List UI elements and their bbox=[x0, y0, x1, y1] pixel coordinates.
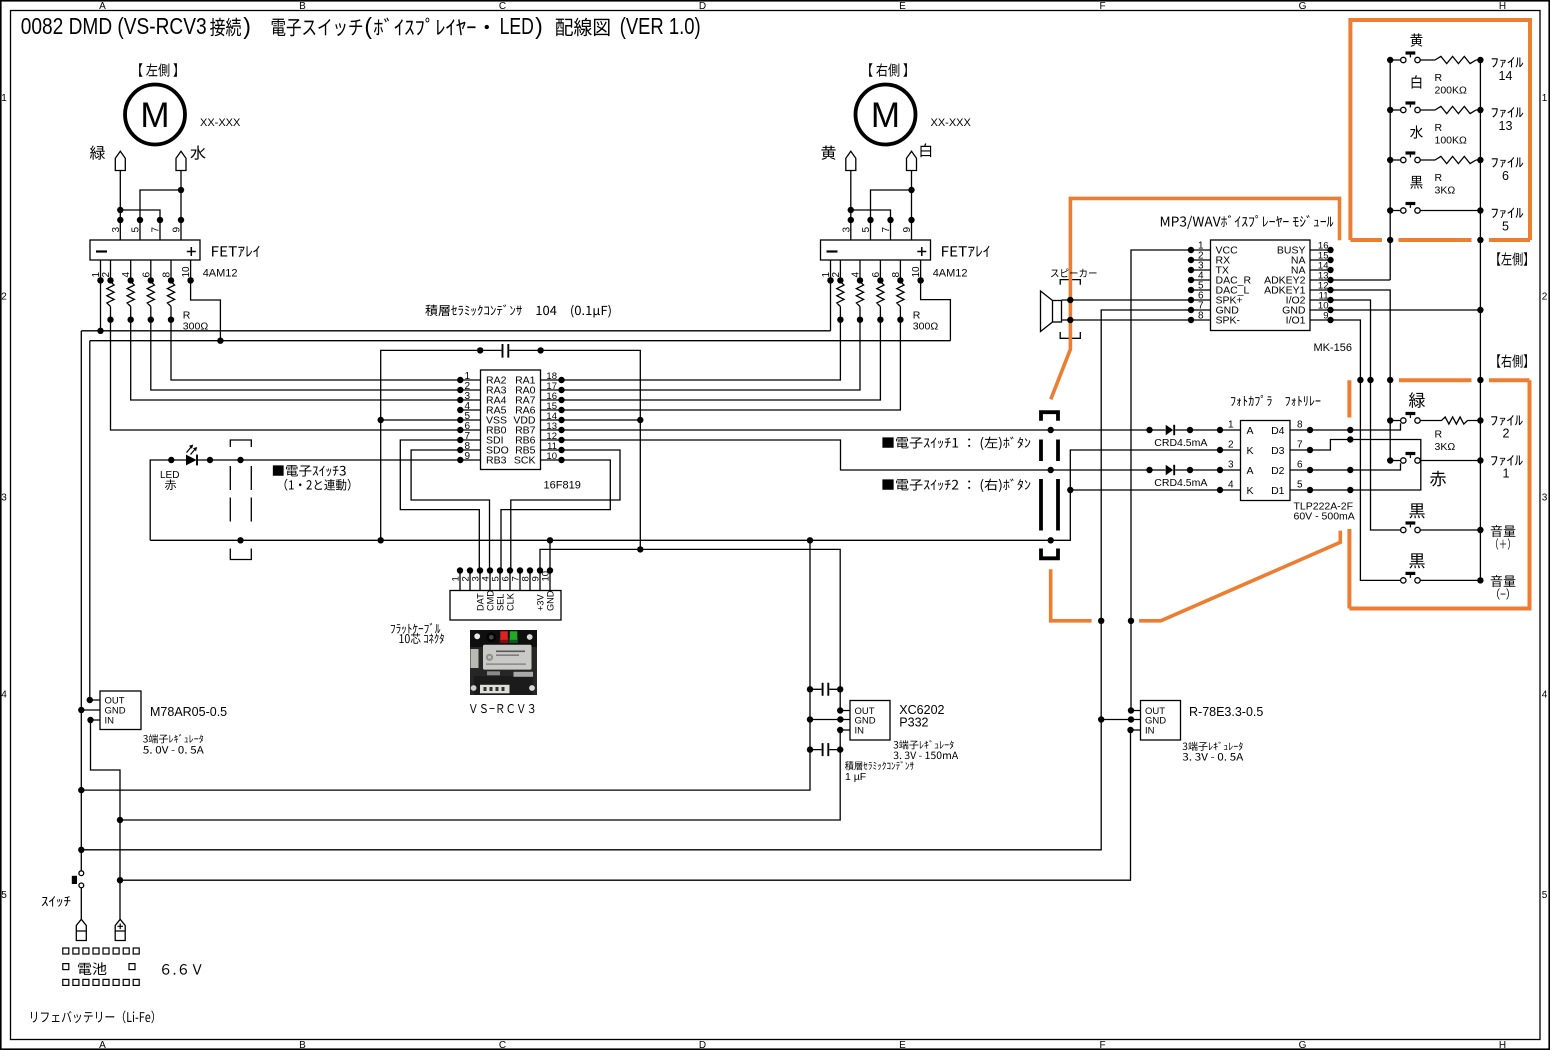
svg-text:D4: D4 bbox=[1271, 425, 1285, 437]
svg-text:R: R bbox=[1435, 122, 1443, 134]
svg-text:2: 2 bbox=[101, 272, 112, 278]
svg-text:A: A bbox=[99, 1040, 106, 1050]
svg-text:SPK-: SPK- bbox=[1216, 315, 1241, 327]
svg-text:6: 6 bbox=[1297, 460, 1303, 471]
svg-text:10: 10 bbox=[181, 266, 192, 278]
svg-text:CLK: CLK bbox=[505, 592, 515, 611]
svg-text:9: 9 bbox=[172, 227, 183, 233]
svg-text:9: 9 bbox=[902, 227, 913, 233]
svg-text:SCK: SCK bbox=[514, 455, 536, 467]
svg-text:6: 6 bbox=[1502, 169, 1509, 183]
svg-text:8: 8 bbox=[1198, 311, 1204, 322]
svg-text:D1: D1 bbox=[1271, 485, 1285, 497]
svg-text:IN: IN bbox=[855, 726, 865, 737]
svg-text:G: G bbox=[1299, 1040, 1307, 1050]
svg-text:5: 5 bbox=[1, 890, 7, 901]
svg-text:IN: IN bbox=[1145, 726, 1155, 737]
svg-text:C: C bbox=[499, 1040, 506, 1050]
svg-text:300Ω: 300Ω bbox=[913, 321, 939, 333]
svg-text:F: F bbox=[1099, 1, 1105, 12]
svg-text:1: 1 bbox=[1503, 467, 1510, 481]
svg-text:5: 5 bbox=[861, 227, 872, 233]
svg-text:R-78E3.3-0.5: R-78E3.3-0.5 bbox=[1189, 705, 1263, 719]
svg-text:5: 5 bbox=[1502, 220, 1509, 234]
svg-text:): ) bbox=[535, 13, 543, 39]
svg-text:XX-XXX: XX-XXX bbox=[200, 117, 241, 129]
svg-text:16F819: 16F819 bbox=[544, 480, 581, 492]
svg-text:9: 9 bbox=[464, 451, 470, 462]
svg-text:+3V: +3V bbox=[535, 594, 545, 611]
svg-text:3: 3 bbox=[1228, 460, 1234, 471]
svg-text:3: 3 bbox=[1, 493, 7, 504]
svg-text:3KΩ: 3KΩ bbox=[1435, 185, 1456, 197]
svg-text:M: M bbox=[871, 96, 900, 135]
svg-text:C: C bbox=[499, 1, 506, 12]
svg-text:D: D bbox=[699, 1, 706, 12]
svg-text:7: 7 bbox=[151, 227, 162, 233]
svg-text:B: B bbox=[299, 1, 306, 12]
svg-text:D3: D3 bbox=[1271, 445, 1285, 457]
svg-text:G: G bbox=[1299, 1, 1307, 12]
svg-text:3: 3 bbox=[1542, 493, 1548, 504]
svg-text:60V - 500mA: 60V - 500mA bbox=[1294, 511, 1355, 523]
svg-text:H: H bbox=[1499, 1, 1506, 12]
svg-text:R: R bbox=[1435, 429, 1443, 441]
svg-text:8: 8 bbox=[1297, 420, 1303, 431]
svg-text:IN: IN bbox=[105, 716, 115, 727]
svg-text:K: K bbox=[1247, 485, 1254, 497]
svg-text:K: K bbox=[1247, 445, 1254, 457]
svg-text:6: 6 bbox=[871, 272, 882, 278]
svg-text:CMD: CMD bbox=[485, 590, 495, 611]
svg-text:0082 DMD (VS-RCV3: 0082 DMD (VS-RCV3 bbox=[21, 13, 207, 39]
svg-text:5: 5 bbox=[131, 227, 142, 233]
svg-text:2: 2 bbox=[1542, 292, 1548, 303]
svg-text:100KΩ: 100KΩ bbox=[1435, 135, 1468, 147]
svg-text:8: 8 bbox=[162, 272, 173, 278]
svg-text:(VER 1.0): (VER 1.0) bbox=[620, 13, 701, 39]
svg-text:): ) bbox=[243, 13, 251, 39]
svg-text:LED: LED bbox=[160, 470, 179, 481]
svg-text:9: 9 bbox=[1323, 311, 1328, 322]
svg-text:A: A bbox=[99, 1, 106, 12]
svg-text:4: 4 bbox=[1542, 690, 1548, 701]
svg-text:4AM12: 4AM12 bbox=[933, 268, 968, 280]
svg-text:F: F bbox=[1099, 1040, 1105, 1050]
svg-text:10: 10 bbox=[911, 266, 922, 278]
svg-text:CRD4.5mA: CRD4.5mA bbox=[1154, 437, 1207, 449]
svg-text:2: 2 bbox=[1228, 440, 1234, 451]
svg-text:4: 4 bbox=[851, 272, 862, 278]
svg-text:14: 14 bbox=[1499, 69, 1513, 83]
svg-text:RB3: RB3 bbox=[486, 455, 507, 467]
svg-text:10: 10 bbox=[546, 451, 557, 462]
svg-text:E: E bbox=[899, 1, 906, 12]
svg-text:A: A bbox=[1247, 425, 1254, 437]
svg-text:P332: P332 bbox=[899, 716, 928, 730]
svg-text:D: D bbox=[699, 1040, 706, 1050]
svg-text:1: 1 bbox=[1, 93, 7, 104]
svg-text:1: 1 bbox=[1228, 420, 1234, 431]
svg-text:I/O1: I/O1 bbox=[1286, 315, 1306, 327]
svg-text:6: 6 bbox=[141, 272, 152, 278]
svg-text:1 µF: 1 µF bbox=[845, 771, 866, 783]
svg-text:4: 4 bbox=[1228, 480, 1234, 491]
svg-text:5: 5 bbox=[1542, 890, 1548, 901]
svg-text:2: 2 bbox=[831, 272, 842, 278]
svg-text:4AM12: 4AM12 bbox=[203, 268, 238, 280]
svg-text:M78AR05-0.5: M78AR05-0.5 bbox=[150, 705, 227, 719]
svg-text:CRD4.5mA: CRD4.5mA bbox=[1154, 477, 1207, 489]
svg-text:3: 3 bbox=[111, 227, 122, 233]
svg-text:R: R bbox=[1435, 172, 1443, 184]
svg-text:A: A bbox=[1247, 465, 1254, 477]
svg-text:13: 13 bbox=[1499, 119, 1513, 133]
svg-text:DAT: DAT bbox=[475, 593, 485, 611]
svg-text:B: B bbox=[299, 1040, 306, 1050]
svg-text:LED: LED bbox=[500, 13, 534, 39]
svg-text:E: E bbox=[899, 1040, 906, 1050]
svg-text:8: 8 bbox=[891, 272, 902, 278]
svg-text:1: 1 bbox=[1542, 93, 1548, 104]
svg-text:MK-156: MK-156 bbox=[1314, 342, 1353, 354]
svg-text:XX-XXX: XX-XXX bbox=[931, 117, 972, 129]
svg-text:3: 3 bbox=[841, 227, 852, 233]
svg-text:2: 2 bbox=[1503, 427, 1510, 441]
svg-text:7: 7 bbox=[881, 227, 892, 233]
svg-text:7: 7 bbox=[1297, 440, 1303, 451]
svg-text:4: 4 bbox=[121, 272, 132, 278]
svg-text:H: H bbox=[1499, 1040, 1506, 1050]
svg-text:GND: GND bbox=[545, 590, 555, 611]
svg-text:200KΩ: 200KΩ bbox=[1435, 85, 1468, 97]
svg-text:2: 2 bbox=[1, 292, 7, 303]
svg-text:R: R bbox=[1435, 72, 1443, 84]
svg-text:5: 5 bbox=[1297, 480, 1303, 491]
svg-text:M: M bbox=[140, 96, 169, 135]
svg-text:D2: D2 bbox=[1271, 465, 1285, 477]
svg-text:300Ω: 300Ω bbox=[183, 321, 209, 333]
svg-text:4: 4 bbox=[1, 690, 7, 701]
svg-text:(: ( bbox=[364, 13, 372, 39]
svg-text:SEL: SEL bbox=[495, 594, 505, 611]
svg-text:10: 10 bbox=[541, 571, 552, 582]
svg-text:3KΩ: 3KΩ bbox=[1435, 441, 1456, 453]
